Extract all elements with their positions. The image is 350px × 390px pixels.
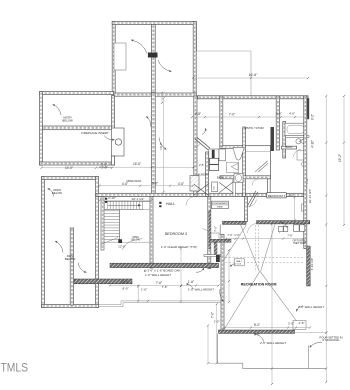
note wall height 2 <box>188 287 214 291</box>
leader settee <box>310 342 323 347</box>
wall den right <box>96 177 99 308</box>
svg-text:FIREPLACE INSERT: FIREPLACE INSERT <box>81 131 109 135</box>
svg-text:14'-0": 14'-0" <box>65 166 73 170</box>
ceiling upper right diag <box>261 224 276 271</box>
leader rec niche <box>220 289 224 302</box>
dim v right 344 <box>343 96 345 225</box>
bar boxes <box>279 226 284 231</box>
svg-text:16'-6": 16'-6" <box>133 162 141 166</box>
wall shower west <box>243 127 246 196</box>
leader left room up <box>53 105 62 116</box>
wall bath west <box>194 96 197 196</box>
bedroom3 right hatch bar <box>208 210 211 249</box>
dim t22 <box>254 323 260 327</box>
wall bath1 west <box>220 96 223 146</box>
leader oak left2 <box>186 284 193 289</box>
svg-text:BEDROOM 4: BEDROOM 4 <box>268 194 286 198</box>
dim t26c <box>287 234 292 238</box>
svg-text:2'-6": 2'-6" <box>101 165 107 169</box>
wall left room right upper <box>112 96 115 129</box>
label laundry <box>196 172 209 176</box>
wall right exterior <box>304 96 307 249</box>
svg-text:1'-6" WALL HEIGHT: 1'-6" WALL HEIGHT <box>145 273 171 277</box>
label mstr stor <box>244 126 264 130</box>
note wall height rec bottom <box>260 341 286 345</box>
svg-text:BELOW: BELOW <box>52 191 62 195</box>
ceiling dash vertical 1 <box>255 225 257 272</box>
svg-text:12'-0": 12'-0" <box>118 244 126 248</box>
closet hatch upper <box>209 149 219 161</box>
dim t4 <box>289 112 295 116</box>
svg-text:2'-6": 2'-6" <box>298 321 304 325</box>
dim v 138 <box>137 287 139 302</box>
dim t18 <box>188 280 194 284</box>
note pour settee 2 <box>322 338 340 342</box>
masonry note box <box>234 259 244 266</box>
leader rec bottom <box>254 334 264 342</box>
garage bump-out <box>114 43 126 70</box>
dim v 208 <box>207 326 209 364</box>
dim t5b <box>199 163 204 167</box>
svg-text:10'-11 3/4": 10'-11 3/4" <box>308 189 312 203</box>
dim v left of rec <box>216 304 218 363</box>
rec east hatch bar <box>307 246 311 286</box>
label left room line2 <box>62 118 73 122</box>
stair upper run <box>104 200 150 202</box>
svg-text:1'-0": 1'-0" <box>214 320 220 324</box>
svg-text:7'-6": 7'-6" <box>156 281 162 285</box>
stair door arc <box>122 239 142 250</box>
label bedroom3 <box>165 232 187 236</box>
svg-text:WET BAR: WET BAR <box>293 241 306 245</box>
dim t23 <box>288 322 294 326</box>
dim row below oak 1 <box>110 285 219 287</box>
svg-text:1'-0" CLEAR HEIGHT (TYP): 1'-0" CLEAR HEIGHT (TYP) <box>161 245 197 249</box>
rec west wall upper stub <box>219 224 221 235</box>
door bedroom3 hall <box>186 197 195 206</box>
note optional wetbar 2 <box>293 241 306 245</box>
plumbing bar dark <box>271 127 275 151</box>
dim rot r5 <box>338 154 342 162</box>
wall garage right <box>193 22 196 96</box>
wall den top <box>42 177 98 180</box>
wall den left <box>42 177 45 308</box>
leader garage right <box>158 60 172 72</box>
patio outline right <box>218 334 327 369</box>
rec label <box>241 282 277 286</box>
boxed oak band <box>110 263 219 267</box>
ceiling dash horizontal 1 <box>226 257 305 259</box>
dim t15 <box>118 244 126 248</box>
wall closet partition <box>267 179 270 197</box>
dim t11 <box>178 182 184 186</box>
leader den down <box>78 263 87 273</box>
bath2 toilet <box>296 139 301 144</box>
stair break line <box>101 238 118 245</box>
closet hatch lower <box>190 176 199 192</box>
bath2 tub <box>285 123 306 136</box>
svg-text:7'-6": 7'-6" <box>161 285 167 289</box>
svg-text:16'-6": 16'-6" <box>249 73 258 77</box>
wd boxes <box>294 225 300 232</box>
roof step outline <box>197 22 251 96</box>
leader fireplace <box>104 136 115 140</box>
note boxed oak <box>144 268 181 272</box>
dim rec bottom <box>224 327 310 329</box>
wall rec west <box>221 235 224 332</box>
bath2 corner dark bar <box>306 98 309 119</box>
svg-text:22'-1 1/2": 22'-1 1/2" <box>132 197 145 201</box>
door laundry <box>194 142 200 149</box>
svg-text:2'-8": 2'-8" <box>195 112 201 116</box>
svg-text:5'-0": 5'-0" <box>152 181 158 185</box>
svg-text:BELOW: BELOW <box>65 257 76 261</box>
leader mstr entry <box>202 128 206 134</box>
laundry appliance 1 <box>210 158 219 164</box>
wall bedroom4 west <box>245 196 248 221</box>
label left room line1 <box>63 116 71 120</box>
dim t2 <box>229 113 235 117</box>
rec entry niche <box>211 233 219 240</box>
door rec entry <box>248 224 258 234</box>
stair direction arrow <box>108 204 139 206</box>
svg-text:2'-6": 2'-6" <box>276 112 282 116</box>
label fireplace insert <box>81 131 109 135</box>
wall den bottom <box>42 305 99 308</box>
door bedroom4 leaf <box>247 191 256 206</box>
svg-text:4'-6": 4'-6" <box>178 182 184 186</box>
wall bath2 mid <box>286 136 310 138</box>
ceiling vault right leg <box>261 272 297 321</box>
leader great down <box>159 138 167 150</box>
dim v great room <box>163 98 165 192</box>
patio east edge <box>307 346 309 369</box>
door bath1 <box>252 179 259 186</box>
note wall height 1 <box>145 273 171 277</box>
dim t6 <box>133 162 141 166</box>
door rec entry2 <box>280 224 290 233</box>
entertainment stand box <box>212 201 229 208</box>
svg-text:TMLS: TMLS <box>1 361 29 375</box>
dim rot r3 <box>308 189 312 203</box>
dim row rec top <box>226 238 303 240</box>
dim t7 <box>65 166 73 170</box>
dim t26b <box>234 233 239 237</box>
closet dark bar <box>212 150 215 159</box>
wall laundry east <box>206 152 209 196</box>
leader masonry <box>231 264 237 267</box>
wall left room mid <box>43 126 113 130</box>
dim rot great <box>159 142 163 150</box>
dim rot 7-6 <box>211 312 215 318</box>
wall left room top <box>40 92 114 95</box>
svg-text:4'-6": 4'-6" <box>289 112 295 116</box>
svg-text:HALL: HALL <box>166 202 175 206</box>
shower door diagonals <box>255 161 267 172</box>
dim t26 <box>227 233 232 237</box>
label bedroom4 box <box>267 193 286 198</box>
dim rot r4 <box>310 258 314 271</box>
label den upper 1 <box>53 188 61 192</box>
dim v 272 <box>271 224 273 384</box>
dim t25 <box>254 333 260 337</box>
svg-text:OPEN: OPEN <box>132 237 139 239</box>
closet hatch band horizontal <box>210 239 231 242</box>
label open below 1 <box>132 237 139 239</box>
wall hall <box>96 193 307 196</box>
note clear height <box>161 245 197 249</box>
dim bath row <box>192 116 308 118</box>
wall great room east <box>152 93 156 193</box>
svg-text:9'-2": 9'-2" <box>311 114 315 120</box>
dim t19 <box>122 286 128 290</box>
wall garage left <box>112 22 115 96</box>
svg-text:1'-6": 1'-6" <box>188 280 194 284</box>
stair newel post <box>118 239 122 243</box>
svg-text:MSTR / STOR: MSTR / STOR <box>244 126 264 130</box>
wall bath2 south <box>282 146 297 149</box>
dim great room upper <box>100 166 194 168</box>
svg-text:4'-10 1/2": 4'-10 1/2" <box>310 258 314 271</box>
svg-text:CLG.: CLG. <box>237 264 242 266</box>
rec south wall <box>219 330 295 333</box>
bath1 door X marks <box>219 182 233 193</box>
svg-text:2'-0": 2'-0" <box>288 322 294 326</box>
svg-text:@ 3'-6" X 1'-6" BOXED OAK: @ 3'-6" X 1'-6" BOXED OAK <box>144 268 181 272</box>
svg-text:BELOW: BELOW <box>62 118 73 122</box>
leader garage left <box>131 40 147 54</box>
label bath2 <box>285 145 292 149</box>
dim t12 <box>108 196 116 200</box>
closet south wall <box>204 255 221 257</box>
dim t5 <box>101 163 107 167</box>
svg-text:RECREATION ROOM: RECREATION ROOM <box>241 282 277 286</box>
wall bath1 north <box>220 146 243 149</box>
wall garage divider <box>152 25 156 93</box>
svg-text:BEDROOM 3: BEDROOM 3 <box>165 232 187 236</box>
dim t8 <box>101 165 107 169</box>
stair lower run <box>119 209 121 242</box>
dim text 16-6 top <box>249 73 258 77</box>
label open below 2 <box>131 239 140 241</box>
leader den upper <box>48 189 54 197</box>
svg-text:8'-0": 8'-0" <box>254 323 260 327</box>
wall bath top band <box>198 96 309 99</box>
dim v right 326 <box>325 96 327 382</box>
wall toilet partition <box>233 179 235 197</box>
patio edge lines <box>99 301 222 305</box>
bath1 vanity <box>227 162 239 173</box>
svg-text:OPEN RAIL: OPEN RAIL <box>126 179 142 183</box>
shower room <box>245 146 270 178</box>
label bath1 <box>217 175 224 179</box>
svg-text:19'-2": 19'-2" <box>338 154 342 162</box>
svg-text:7'-0": 7'-0" <box>229 113 235 117</box>
label open rail <box>126 179 142 183</box>
bath2 shower box <box>297 151 306 161</box>
svg-text:LIN: LIN <box>214 186 216 190</box>
svg-text:4'-10": 4'-10" <box>311 140 315 148</box>
bath toilet <box>234 174 243 183</box>
svg-text:7'-6": 7'-6" <box>214 226 218 232</box>
wall garage top <box>112 22 196 25</box>
svg-text:1'-6" WALL HEIGHT: 1'-6" WALL HEIGHT <box>188 287 214 291</box>
label den line2 <box>65 257 76 261</box>
stair landing <box>120 209 151 242</box>
dim below hall left <box>100 199 152 201</box>
garage door hardware <box>148 53 158 58</box>
svg-text:4" DIAGONAL: 4" DIAGONAL <box>322 338 340 342</box>
door bath2 <box>294 150 302 158</box>
wall left room left <box>40 92 43 165</box>
low wall dark band left <box>74 279 132 284</box>
closet dark jamb <box>216 255 220 262</box>
shower top band <box>245 151 270 153</box>
hall jamb marks <box>159 202 161 204</box>
label hall <box>166 202 175 206</box>
dim t13 <box>132 197 145 201</box>
svg-text:1'-6": 1'-6" <box>141 288 147 292</box>
dim t10 <box>152 181 158 185</box>
wall bedroom3 left <box>150 196 153 268</box>
bath diagonal wall <box>195 139 208 150</box>
ceiling upper left diag <box>241 225 260 272</box>
label den line1 <box>67 254 73 258</box>
bottom dim line <box>295 332 327 334</box>
leader den up <box>55 241 63 253</box>
svg-text:10'-6": 10'-6" <box>121 280 129 284</box>
wall bath2 west <box>283 122 286 159</box>
bedroom4 south wall east seg <box>257 221 310 224</box>
dim t9 <box>122 182 128 186</box>
wall left room bottom <box>40 162 115 165</box>
dim t1 <box>195 112 201 116</box>
dim v 181 <box>180 249 182 302</box>
leader wetbar <box>297 306 304 312</box>
dim v garage door <box>161 93 163 103</box>
svg-text:7'-6": 7'-6" <box>211 312 215 318</box>
dim t20 <box>141 288 147 292</box>
ceiling corner diag <box>223 226 246 262</box>
dim t3 <box>276 112 282 116</box>
leader great up <box>146 117 151 127</box>
ceiling dash vertical 2 <box>258 225 260 272</box>
dim t17 <box>156 281 162 285</box>
master tub funnel <box>233 147 245 160</box>
note optional wetbar 1 <box>293 239 307 243</box>
wall left room right lower <box>112 156 115 165</box>
bedroom4 south wall west seg <box>223 221 247 224</box>
dim rot r1 <box>311 114 315 120</box>
dim top 16-6 <box>193 77 308 79</box>
dim t24 <box>298 321 304 325</box>
dim great room lower <box>100 185 194 187</box>
wall bedroom3 right <box>208 196 211 268</box>
note wall height rec right <box>298 305 324 309</box>
dim t16 <box>121 280 129 284</box>
wall den partition <box>70 228 73 305</box>
svg-text:8'-0": 8'-0" <box>122 286 128 290</box>
dim t21 <box>161 285 167 289</box>
leader oak left <box>196 268 204 272</box>
stair jamb marks <box>105 198 107 200</box>
stair west wall <box>101 197 104 251</box>
door bedroom4 arc <box>248 200 257 207</box>
dim rot b3bar <box>214 226 218 232</box>
dim v 229 <box>228 250 230 302</box>
fireplace bump <box>112 128 125 156</box>
ceiling vault left leg <box>225 272 260 329</box>
right wall fixtures <box>302 162 307 167</box>
fireplace circle <box>115 139 121 145</box>
leader bedroom4 wall <box>281 223 288 229</box>
note pour settee 1 <box>319 335 342 339</box>
dim below hall right <box>294 197 296 221</box>
linen box <box>212 182 218 192</box>
dim text 1-0 recleft <box>214 320 220 324</box>
dim t14 <box>288 193 293 197</box>
label den upper 2 <box>52 191 62 195</box>
svg-text:2'-10": 2'-10" <box>108 196 116 200</box>
wall garage bottom <box>112 93 196 96</box>
dim h 363 left stub <box>208 362 218 364</box>
laundry appliance 2 <box>210 165 219 171</box>
ceiling dash horizontal 2 <box>226 262 305 264</box>
door bedroom3 closet <box>202 229 209 236</box>
wall mstr stor east <box>276 96 279 150</box>
rec se corner box <box>293 321 306 330</box>
wall bath1 south <box>220 176 271 179</box>
dim rot r2 <box>311 140 315 148</box>
dim left room <box>42 167 113 169</box>
laundry door X marks <box>194 184 209 195</box>
